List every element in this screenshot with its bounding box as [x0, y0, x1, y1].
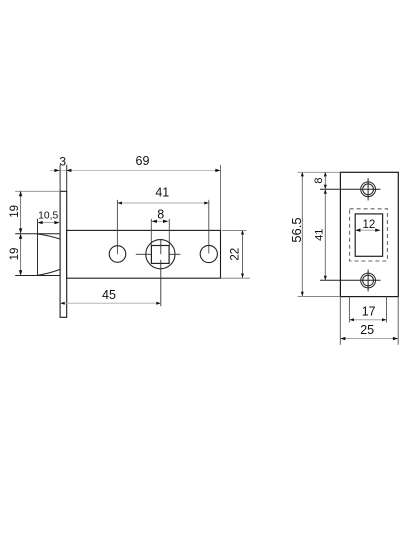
wire: extension 41 left to circle	[116, 200, 118, 254]
barrel bottom line	[15, 275, 60, 277]
wire: extension 25 right	[397, 297, 399, 345]
wire: extension 8 right	[168, 219, 170, 246]
dim line 8	[151, 220, 169, 222]
screw hole top inner	[363, 184, 374, 195]
node arrow 25 right	[393, 337, 398, 340]
dim line 25	[340, 338, 398, 340]
svg-text:45: 45	[102, 288, 116, 302]
svg-text:12: 12	[363, 219, 376, 231]
screw hole bottom inner	[363, 275, 374, 286]
screw hole bottom outer	[361, 273, 376, 288]
barrel flare bottom	[38, 269, 61, 275]
wire: extension 56.5 top	[298, 171, 341, 173]
svg-text:56.5: 56.5	[289, 217, 304, 242]
node arrow 3 left (points right, tip at plate left)	[54, 169, 59, 172]
centerline screw top vertical	[367, 178, 369, 200]
screw hole top outer	[361, 182, 376, 197]
wire: extension screw top horizontal	[320, 188, 381, 190]
barrel top line	[15, 233, 60, 235]
node arrow 22 bottom	[241, 274, 244, 279]
wire: dim line y=170.4 for "3" and "69"	[50, 169, 221, 171]
spindle circle center	[146, 240, 175, 269]
node arrow 8 left	[152, 220, 157, 223]
wire: extension 19 top	[15, 190, 60, 192]
svg-text:8: 8	[313, 178, 325, 184]
dim line 17	[349, 319, 386, 321]
centerline vertical / 45 extension	[160, 239, 162, 254]
centerline screw bottom vertical	[367, 270, 369, 292]
wire: extension 41 right to circle	[208, 200, 210, 254]
svg-text:25: 25	[360, 323, 374, 337]
centerline horizontal right segment	[168, 253, 180, 255]
centerline horizontal	[136, 253, 151, 255]
node arrow 12 right	[375, 229, 380, 232]
dim line 56.5	[301, 172, 303, 296]
node arrow 56.5 bottom	[301, 292, 304, 297]
wire: extension 8 left	[150, 219, 152, 246]
node arrow 56.5 top	[301, 172, 304, 177]
dim line 12	[355, 229, 380, 231]
spindle square 8mm	[151, 246, 169, 264]
dim line 41	[117, 202, 208, 204]
lock body	[67, 230, 221, 278]
wire: extension plate-right above	[66, 165, 68, 192]
node arrow 12 left	[355, 229, 360, 232]
node arrow r41 bottom	[324, 276, 327, 281]
node arrow 45 right	[156, 302, 161, 305]
node arrow 41 right	[204, 202, 209, 205]
svg-text:22: 22	[230, 248, 242, 261]
svg-text:19: 19	[9, 248, 21, 261]
node arrow 8 right	[163, 220, 168, 223]
svg-text:17: 17	[362, 305, 376, 319]
wire: extension 22 top	[222, 229, 247, 231]
dashed cutout boundary	[350, 209, 388, 261]
node arrow 41 left	[117, 202, 122, 205]
hole circle left	[109, 246, 126, 263]
node arrow r41 top	[324, 189, 327, 194]
node arrow 10,5 left	[38, 221, 43, 224]
dim line 19/19 vertical	[20, 191, 22, 276]
node arrow 69 right (points right, tip at body right)	[215, 169, 220, 172]
wire: extension 17 left	[348, 297, 350, 323]
node arrow 19 bottom (down)	[19, 270, 22, 275]
node arrow r8 top	[324, 172, 327, 177]
node arrow 22 top	[241, 230, 244, 235]
wire: extension 56.5 bottom	[298, 296, 341, 298]
wire: extension screw bottom horizontal	[320, 279, 381, 281]
node arrow 19 mid (up)	[19, 234, 22, 239]
dim line 22	[242, 230, 244, 278]
faceplate front outline	[340, 172, 398, 296]
barrel back edge	[37, 219, 39, 276]
hole circle right	[200, 245, 217, 262]
node arrow 17 right	[382, 318, 387, 321]
wire: extension 17 right	[386, 297, 388, 323]
node arrow 69 left (points left, tip at plate right)	[66, 169, 71, 172]
svg-text:8: 8	[157, 208, 164, 222]
wire: extension body-right above	[220, 165, 222, 230]
node arrow 17 left	[349, 318, 354, 321]
faceplate (side view)	[60, 191, 67, 317]
barrel flare top	[38, 234, 61, 239]
centerline vertical lower segment	[160, 260, 162, 306]
node arrow 19 mid (down)	[19, 228, 22, 233]
latch hole rect	[355, 214, 382, 256]
node arrow 25 left	[340, 337, 345, 340]
wire: extension 22 bottom	[221, 277, 251, 279]
wire: extension 25 left	[339, 297, 341, 345]
dim line 8/41 vertical	[324, 172, 326, 280]
svg-text:41: 41	[313, 229, 325, 241]
svg-text:41: 41	[155, 186, 169, 200]
svg-text:10,5: 10,5	[38, 211, 58, 222]
node arrow r8 bottom	[324, 185, 327, 190]
node arrow 10,5 right	[54, 221, 59, 224]
node arrow 45 left	[60, 302, 64, 305]
dim line 10,5	[38, 222, 61, 224]
svg-text:19: 19	[9, 205, 21, 218]
wire: extension plate-left above	[59, 165, 61, 192]
dim line 45	[60, 302, 161, 304]
svg-text:69: 69	[136, 154, 150, 168]
node arrow 19 top (up)	[19, 191, 22, 196]
